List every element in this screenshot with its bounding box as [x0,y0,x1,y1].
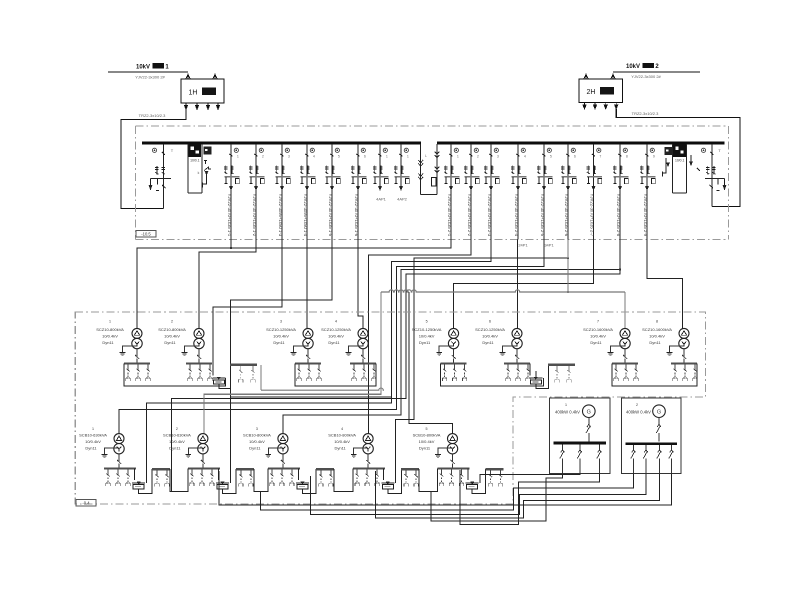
T4 ATS second input [395,476,397,483]
wire f620 bundle4 to tie link 1-2 [171,240,620,492]
svg-text:k: k [198,171,200,175]
transformer T3 [278,434,288,444]
M1 neutral ground [123,346,138,350]
G1 feeders [562,444,564,449]
svg-text:10/0.1: 10/0.1 [190,159,200,163]
svg-text:10/0.4kV: 10/0.4kV [85,439,101,444]
1H bottom pins [185,103,187,106]
ATS switch [296,482,309,484]
M1 LV bus [124,362,150,364]
grey drop to M7 [624,292,626,328]
svg-text:G: G [587,409,591,415]
transformer T2 [198,434,208,444]
T2 LV bus [188,467,220,469]
feeder bay at x=358 [357,144,359,187]
transformer T5 [448,434,458,444]
M8 LV connection [683,349,685,358]
generator room box 1 [550,398,611,474]
middle pair 4 link [612,364,697,386]
svg-text:10/0.4kV: 10/0.4kV [328,334,344,339]
wire f256 to transformer M2 [199,240,256,329]
svg-text:G: G [657,409,661,415]
svg-text:YJV22-3x95+1x50 1-3: YJV22-3x95+1x50 1-3 [278,194,283,237]
svg-text:3: 3 [288,155,290,159]
feeder bay at x=231 [230,144,232,187]
transformer M6 [512,328,522,338]
svg-text:SCZ10-1600kVA: SCZ10-1600kVA [642,327,672,332]
svg-text:YJV22-3x70+1x35 2-4: YJV22-3x70+1x35 2-4 [514,194,519,237]
T3 LV connection [282,454,284,462]
wire f282 to middle ATS pair1 [213,240,282,376]
feeder bay at x=256 [255,144,257,187]
svg-text:YJV22-3x300 2#: YJV22-3x300 2# [631,74,661,79]
T3 LV bus [268,467,300,469]
feeder bay at x=518 [517,144,519,187]
svg-text:10kV: 10kV [626,64,640,70]
T3 neutral ground [268,448,283,452]
arrester arrows on 1H top [187,74,189,80]
svg-text:YJV22-3x70+1x35 2-3: YJV22-3x70+1x35 2-3 [487,194,492,237]
feeder bay at x=332 [331,144,333,187]
T1 emergency bus [152,468,170,470]
svg-text:SCZ10-1250kVA: SCZ10-1250kVA [412,327,442,332]
T1 ATS output to emergency bus [139,469,153,493]
svg-text:4AP1: 4AP1 [376,197,387,202]
bottom unit tie links [170,468,188,491]
wire 2H to switchgear incomer B [616,109,740,207]
grey trunk f568 through bundle to M7 and T2 [567,240,569,293]
G2 wire 1 to tie 2-3 [261,474,634,511]
T3 ATS second input [309,476,311,483]
T4 LV bus [353,467,385,469]
svg-text:400kW 0.4kV: 400kW 0.4kV [626,410,651,415]
M5 LV bus [441,362,467,364]
svg-text:6: 6 [364,155,366,159]
T1 bus drop to ATS [134,468,136,480]
svg-text:2: 2 [262,155,264,159]
svg-text:10/0.1: 10/0.1 [675,159,685,163]
svg-text:Dyn11: Dyn11 [249,446,261,451]
G2 wire 2 to ATS3 second input [310,474,646,515]
svg-text:3: 3 [256,427,258,431]
svg-text:5: 5 [426,427,428,431]
svg-text:TRZ2-3x10/2.3: TRZ2-3x10/2.3 [139,113,166,118]
T4 bus drop to ATS [383,468,385,480]
middle pair 3 link and ATS [441,364,544,386]
M8 neutral ground [670,346,685,350]
svg-text:Dyn11: Dyn11 [273,340,285,345]
svg-text:YJV22-3x70+1x35 1-1: YJV22-3x70+1x35 1-1 [227,194,232,237]
svg-text:10/0.4kV: 10/0.4kV [419,334,435,339]
incomer bay II [711,144,713,207]
generator G1 [583,405,596,418]
feeder bay at x=401 [400,144,402,187]
T5 LV connection [452,454,454,462]
svg-text:Dyn11: Dyn11 [169,446,181,451]
T2 bus drop to ATS [217,468,219,480]
M2 LV connection [198,349,200,358]
T3 emergency bus [316,468,334,470]
T1 LV connection [118,454,120,462]
wire f544 bundle3 to bottom T1 [119,240,544,434]
svg-text:4AP2: 4AP2 [397,197,408,202]
M3 neutral ground [294,346,309,350]
transformer M1 [132,328,142,338]
incoming line 10kV source 1 [108,71,188,73]
M6 neutral ground [503,346,518,350]
T2 LV connection [202,454,204,462]
svg-text:Dyn11: Dyn11 [419,340,431,345]
ATS switch [381,482,394,484]
G1 switch [588,418,590,425]
svg-text:YJV22-3x70+1x35 2-6: YJV22-3x70+1x35 2-6 [564,194,569,237]
svg-text:10/0.4kV: 10/0.4kV [249,439,265,444]
svg-text:1: 1 [457,155,459,159]
transformer M3 [303,328,313,338]
substation room dashed border L-shape [75,312,705,504]
incomer bay I [162,144,164,209]
tap f231 onto trunk [230,240,232,249]
M2 neutral ground [185,346,200,350]
arrester arrows on 2H top [585,75,587,80]
svg-text:4: 4 [524,155,526,159]
ATS switch [132,482,145,484]
branch f568 to bottom ATS4 [396,258,569,480]
feeder bay at x=471 [470,144,472,187]
aux metering bay II [665,148,672,155]
svg-text:Dyn11: Dyn11 [164,340,176,345]
transformer M8 [679,328,689,338]
T2 emergency bus [236,468,254,470]
svg-text:SCB10-630kVA: SCB10-630kVA [163,433,191,438]
svg-text:YJV22-3x70+1x35 2-1: YJV22-3x70+1x35 2-1 [447,194,452,237]
wire f471 bundle1 to bottom T4 [369,240,472,434]
svg-text:2: 2 [176,427,178,431]
middle pair 2 link [295,364,376,386]
PT bay II [672,144,674,193]
wire f332 joining bottom ATS2 drop [230,240,332,481]
svg-text:10kV: 10kV [136,65,150,71]
svg-text:Dyn11: Dyn11 [590,340,602,345]
middle emergency bus 3 [548,364,575,366]
svg-text:10/0.4kV: 10/0.4kV [649,334,665,339]
T5 LV bus [438,467,470,469]
M7 LV connection [624,349,626,358]
10kV switchgear room dashed border [136,125,729,127]
bus tie bay [420,144,422,194]
branch to bottom ATS2 [230,396,391,398]
G2 feeders [633,445,635,449]
generator G2 [653,405,666,418]
M7 LV bus [612,362,638,364]
wire f594 to M5 [454,240,594,329]
room label plate 10kV [136,231,156,238]
transformer T1 [114,434,124,444]
T1 neutral ground [105,448,120,452]
svg-text:YJV22-3x70+1x35 1-2: YJV22-3x70+1x35 1-2 [252,194,257,237]
M8 LV bus [671,362,697,364]
svg-text:1: 1 [565,403,567,407]
svg-text:3: 3 [280,320,282,324]
svg-text:YJV22-3x70+1x35 1-5: YJV22-3x70+1x35 1-5 [328,194,333,237]
svg-text:10/0.4kV: 10/0.4kV [164,334,180,339]
transformer M2 [194,328,204,338]
feeder bay at x=451 [450,144,452,187]
transformer substation box 2H [579,79,623,103]
G1 wire 3 to bottom unit 5 emergency bus [460,470,600,524]
T5 emergency bus [486,468,504,470]
T4 LV connection [367,454,369,462]
M5 neutral ground [439,346,454,350]
svg-text:10/0.4kV: 10/0.4kV [169,439,185,444]
M1 LV connection [136,349,138,358]
transformer M5 [449,328,459,338]
branch bundle5 to bottom T3 [283,270,620,434]
svg-text:2H: 2H [587,89,596,96]
svg-text:SCB10-800kVA: SCB10-800kVA [413,433,441,438]
feeder bay at x=544 [543,144,545,187]
T2 ATS output to emergency bus [223,469,237,493]
svg-text:TRZ2-3x10/2.3: TRZ2-3x10/2.3 [632,111,659,116]
svg-text:10/0.4kV: 10/0.4kV [102,334,118,339]
M4 LV connection [362,349,364,358]
svg-text:4: 4 [341,427,343,431]
M3 LV bus [295,362,321,364]
svg-text:7: 7 [600,155,602,159]
T1 ATS second input [145,476,147,483]
ATS switch [529,377,542,379]
svg-text:3: 3 [497,155,499,159]
aux metering bay I [204,147,211,154]
svg-text:YJV22-3x70+1x35 1-6: YJV22-3x70+1x35 1-6 [354,194,359,237]
svg-text:Dyn11: Dyn11 [85,446,97,451]
svg-text:-10.5: -10.5 [141,232,151,237]
middle pair3 ATS output to emergency bus [536,365,549,389]
ATS switch [216,482,229,484]
trunk wire f451 to transformer M1 [137,240,451,329]
svg-text:1: 1 [109,320,111,324]
svg-text:SCZ10-1250kVA: SCZ10-1250kVA [475,327,505,332]
svg-text:10/0.4kV: 10/0.4kV [334,439,350,444]
svg-text:2: 2 [171,320,173,324]
feeder bay at x=647 [646,144,648,187]
svg-text:9: 9 [653,155,655,159]
svg-text:10/0.4kV: 10/0.4kV [590,334,606,339]
svg-text:4: 4 [335,320,337,324]
ATS switch [212,377,225,379]
svg-text:YJV22-3x300 2#: YJV22-3x300 2# [135,75,165,80]
wire f647 to M8 [647,240,683,329]
svg-text:SCZ10-1250kVA: SCZ10-1250kVA [321,327,351,332]
svg-text:YJV22-3x70+1x35 2-2: YJV22-3x70+1x35 2-2 [467,194,472,237]
bus section II 10kV [437,142,725,145]
feeder bay at x=307 [306,144,308,187]
transformer T4 [363,434,373,444]
svg-text:SCB10-630kVA: SCB10-630kVA [79,433,107,438]
G1 wire 1 to ATS5 second input [480,474,580,483]
wire f307 to transformer M3 straight [306,240,308,329]
T5 bus drop to ATS [467,468,469,480]
generator room box 2 [622,398,682,474]
M3 LV connection [307,349,309,358]
M5 LV connection [453,349,455,358]
svg-text:L: L [425,154,427,158]
svg-text:YJV22-3x95+1x50 1-4: YJV22-3x95+1x50 1-4 [303,194,308,237]
svg-text:SCZ10-1600kVA: SCZ10-1600kVA [583,327,613,332]
transformer M4 [358,328,368,338]
M4 neutral ground [349,346,364,350]
incoming line 10kV source 2 [613,71,700,73]
T4 ATS output to emergency bus [388,469,402,493]
room label plate 0.4kV [76,500,96,507]
svg-text:4: 4 [313,155,315,159]
T3 ATS output to emergency bus [303,469,317,493]
svg-text:7: 7 [597,320,599,324]
svg-text:Dyn11: Dyn11 [482,340,494,345]
T2 neutral ground [188,448,203,452]
2H bottom pins [584,103,586,106]
PT bay I [187,144,189,193]
svg-text:SCB10-800kVA: SCB10-800kVA [243,433,271,438]
svg-text:5: 5 [550,155,552,159]
svg-text:10/0.4kV: 10/0.4kV [482,334,498,339]
svg-text:SCZ10-1250kVA: SCZ10-1250kVA [266,327,296,332]
wire f491 bundle2 to bottom ATS1 [146,240,491,481]
T1 LV bus [104,467,136,469]
ATS switch [466,482,479,484]
T4 neutral ground [354,448,369,452]
middle emergency bus 1 [230,364,257,366]
svg-text:SCZ10-800kVA: SCZ10-800kVA [96,327,124,332]
T4 emergency bus [401,468,419,470]
middle pair 1 link and ATS [124,364,225,386]
T5 neutral ground [438,448,453,452]
M6 LV connection [516,349,518,358]
M4 LV bus [350,362,376,364]
T2 ATS second input [229,476,231,483]
feeder bay at x=593.5 [593,144,595,187]
M2 LV bus [186,362,212,364]
wire f518 to M6 straight [517,240,519,329]
svg-text:34P1: 34P1 [544,243,554,248]
svg-text:8: 8 [626,155,628,159]
svg-text:Dyn11: Dyn11 [649,340,661,345]
G2 bus [626,442,677,445]
T3 bus drop to ATS [297,468,299,480]
svg-text:8: 8 [656,320,658,324]
grey tail wire from emergency bus 1 [260,365,262,390]
M7 neutral ground [611,346,626,350]
feeder bay at x=380 [379,144,381,187]
svg-text:10/0.4kV: 10/0.4kV [273,334,289,339]
feeder bay at x=568 [567,144,569,187]
svg-text:10/0.4kV: 10/0.4kV [419,439,435,444]
svg-text:24P1: 24P1 [518,243,528,248]
svg-text:SCB10-800kVA: SCB10-800kVA [328,433,356,438]
wire 1H to switchgear incomer A [121,110,186,209]
G1 wire 2 to tie 4-5 [431,474,563,522]
svg-text:Dyn11: Dyn11 [102,340,114,345]
svg-text:400kW 0.4kV: 400kW 0.4kV [555,410,580,415]
G2 wire 3 to bottom unit 4 [376,471,660,518]
G2 switch [658,418,660,425]
svg-text:-0.4: -0.4 [82,501,90,506]
svg-text:YJV22-3x70+1x35 2-5: YJV22-3x70+1x35 2-5 [540,194,545,237]
svg-text:2: 2 [477,155,479,159]
svg-text:6: 6 [489,320,491,324]
G1 bus [553,442,606,445]
feeder bay at x=282 [281,144,283,187]
svg-text:YJV22-3x70+1x35 2-8: YJV22-3x70+1x35 2-8 [616,194,621,237]
svg-text:YJV22-3x70+1x35 2-9: YJV22-3x70+1x35 2-9 [643,194,648,237]
grey drop to T2 [204,292,381,434]
svg-text:2: 2 [636,403,638,407]
branch to bottom T5 from trunk [409,292,452,434]
svg-text:1: 1 [386,155,388,159]
T5 ATS output to emergency bus [472,469,486,493]
svg-text:Dyn11: Dyn11 [334,446,346,451]
svg-text:YJV22-3x70+1x35 2-7: YJV22-3x70+1x35 2-7 [590,194,595,237]
svg-text:Dyn11: Dyn11 [328,340,340,345]
svg-text:5: 5 [426,320,428,324]
wire f358 to transformer M4 [358,240,363,329]
T5 ATS second input [479,476,481,483]
svg-text:1: 1 [237,155,239,159]
feeder bay at x=491 [490,144,492,187]
svg-text:Dyn11: Dyn11 [419,446,431,451]
middle pair1 ATS output to emergency bus [219,384,231,388]
svg-text:SCZ10-800kVA: SCZ10-800kVA [158,327,186,332]
svg-text:1H: 1H [189,90,198,97]
M6 LV bus [504,362,530,364]
svg-text:1: 1 [407,155,409,159]
svg-text:5: 5 [338,155,340,159]
G2 wire 4 long run to unit 2 [219,471,672,505]
transformer substation box 1H [181,79,224,103]
feeder bay at x=620 [619,144,621,187]
svg-text:1: 1 [92,427,94,431]
bus section I 10kV [142,142,421,145]
svg-text:6: 6 [574,155,576,159]
transformer M7 [620,328,630,338]
